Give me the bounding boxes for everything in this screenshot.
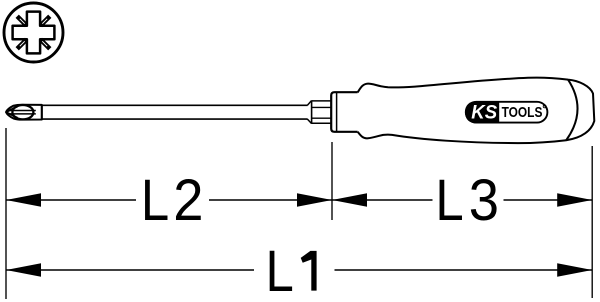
L1 label bbox=[266, 237, 294, 302]
ferrule fill bbox=[331, 92, 358, 132]
L3 left arrowhead bbox=[332, 193, 367, 207]
right extension line bbox=[591, 146, 593, 298]
L2 dimension line left segment bbox=[6, 199, 136, 201]
pozidriv head icon: diagonal tick upper-left bbox=[17, 16, 26, 25]
L2 left arrowhead bbox=[6, 193, 41, 207]
handle end-cap junction arc bbox=[566, 80, 577, 141]
svg-text:L: L bbox=[435, 166, 463, 232]
L2 label bbox=[141, 166, 169, 232]
L3 dimension line right segment bbox=[504, 199, 593, 201]
svg-text:2: 2 bbox=[173, 167, 203, 232]
svg-text:TOOLS: TOOLS bbox=[502, 105, 543, 121]
bolster flare upper bbox=[307, 101, 311, 106]
L1 right arrowhead bbox=[557, 263, 592, 277]
hex facet line upper bbox=[312, 106, 332, 108]
handle fill bbox=[358, 78, 595, 143]
pozidriv head icon: cross recess bbox=[13, 12, 55, 54]
L3 dimension line left segment bbox=[332, 199, 433, 201]
tip grind line upper bbox=[6, 106, 18, 112]
registered trademark mark bbox=[543, 105, 546, 108]
L3 right arrowhead bbox=[557, 193, 592, 207]
tip end vertical line bbox=[41, 105, 43, 120]
pozidriv head icon: outer circle bbox=[4, 3, 63, 62]
hex bolster bottom edge bbox=[312, 122, 332, 124]
KS TOOLS logo pill bbox=[466, 102, 548, 123]
svg-text:L: L bbox=[141, 166, 169, 232]
pozidriv head icon: diagonal tick lower-right bbox=[40, 39, 49, 48]
hex bolster top edge bbox=[312, 100, 332, 102]
handle outline bbox=[358, 78, 595, 143]
L2 right arrowhead bbox=[297, 193, 332, 207]
KS TOOLS logo black KS box bbox=[465, 101, 499, 123]
tip wing ellipse bbox=[12, 105, 33, 119]
svg-text:L: L bbox=[266, 237, 294, 302]
pozidriv head icon: diagonal tick upper-right bbox=[40, 16, 49, 25]
svg-text:KS: KS bbox=[471, 103, 497, 124]
ferrule chamfer line bbox=[336, 92, 338, 131]
ferrule outline bbox=[331, 92, 358, 132]
hex facet line lower bbox=[312, 117, 332, 119]
tip slot line upper bbox=[7, 110, 36, 112]
svg-text:3: 3 bbox=[469, 167, 499, 232]
L1 left arrowhead bbox=[6, 263, 41, 277]
bolster vertical junction line bbox=[311, 100, 313, 124]
tip slot line lower bbox=[7, 113, 36, 115]
tip grind line lower bbox=[6, 112, 18, 118]
screwdriver tip outline bbox=[6, 105, 42, 120]
left extension line bbox=[5, 128, 7, 299]
bolster flare lower bbox=[307, 119, 311, 123]
shaft top edge bbox=[42, 104, 308, 106]
L3 label bbox=[435, 166, 463, 232]
L1 dimension line left segment bbox=[6, 269, 254, 271]
shaft bottom edge bbox=[42, 118, 308, 120]
middle extension line bbox=[331, 142, 333, 220]
pozidriv head icon: diagonal tick lower-left bbox=[17, 39, 26, 48]
L1 dimension line right segment bbox=[335, 269, 593, 271]
L2 dimension line right segment bbox=[209, 199, 332, 201]
